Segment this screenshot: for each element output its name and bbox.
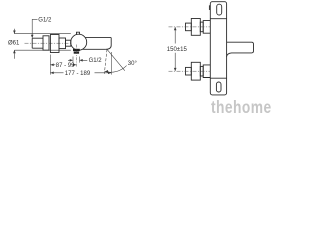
small screw tick on body bbox=[208, 6, 211, 10]
177-189 arrowheads bbox=[50, 72, 111, 75]
thermostat knob circle bbox=[71, 34, 87, 50]
body column bbox=[210, 2, 226, 95]
body neck step A bbox=[59, 38, 66, 49]
knob safety button cap bbox=[77, 32, 80, 34]
outlet dashed centerline bbox=[75, 45, 77, 67]
top connector: shaped piece bbox=[203, 21, 210, 34]
left extension line (wall face) bbox=[49, 55, 51, 75]
30deg arc arrowhead bbox=[105, 70, 109, 73]
bottom connector centerline bbox=[169, 70, 211, 72]
svg-text:150±15: 150±15 bbox=[167, 47, 188, 53]
30deg swivel solid line bbox=[107, 49, 125, 70]
svg-text:G1/2: G1/2 bbox=[38, 17, 52, 23]
Ø61 arrowheads bbox=[13, 31, 16, 54]
shower outlet stub (dark) bbox=[73, 49, 80, 54]
bottom pill handle bbox=[216, 82, 221, 92]
spout arm bbox=[227, 42, 254, 57]
G1/2 outlet extension lines bbox=[73, 57, 79, 63]
150±15 arrowheads bbox=[174, 27, 177, 71]
Ø61 extension line top bbox=[14, 33, 70, 35]
svg-text:177 - 189: 177 - 189 bbox=[65, 71, 91, 77]
body inner line bottom bbox=[210, 77, 226, 79]
dimension 177-189 line bbox=[50, 72, 111, 74]
top connector: tail union bbox=[186, 23, 192, 31]
svg-text:Ø61: Ø61 bbox=[8, 41, 20, 47]
top connector: step ring bbox=[200, 22, 203, 32]
dimension 150±15 line bbox=[174, 27, 176, 71]
G1/2 top leader arrowhead bbox=[31, 35, 34, 38]
wall escutcheon flange bbox=[50, 35, 59, 53]
top pill handle bbox=[217, 4, 222, 15]
dimension 87-99 line bbox=[50, 64, 76, 66]
svg-text:87 - 99: 87 - 99 bbox=[56, 63, 75, 69]
30deg arc bbox=[105, 66, 127, 73]
right extension line (spout tip) bbox=[110, 52, 112, 75]
pipe nut bbox=[43, 36, 49, 50]
G1/2 outlet leader tails bbox=[68, 59, 87, 61]
spout bar bottom edge bbox=[83, 48, 106, 50]
main centerline (dashed) bbox=[25, 42, 73, 44]
svg-text:30°: 30° bbox=[128, 61, 138, 67]
bottom connector: nut bbox=[191, 62, 200, 80]
spout bar top edge bbox=[85, 37, 111, 39]
svg-text:G1/2: G1/2 bbox=[89, 58, 103, 64]
Ø61 extension line bottom bbox=[14, 49, 70, 51]
87-99 arrowheads bbox=[50, 64, 76, 67]
dimension Ø61 vertical line bbox=[13, 29, 15, 59]
label G1/2 top leader bbox=[32, 19, 37, 35]
body inner line top bbox=[210, 18, 226, 20]
bottom connector: tail union bbox=[186, 67, 192, 75]
bottom connector: shaped piece bbox=[203, 65, 210, 78]
watermark thehome bbox=[211, 98, 278, 119]
wall supply pipe bbox=[32, 38, 43, 48]
G1/2 outlet arrows bbox=[70, 59, 83, 62]
top connector: nut bbox=[191, 19, 200, 36]
30deg swivel dashed line bbox=[104, 49, 107, 74]
spout tip right edge and nose curve bbox=[106, 38, 112, 50]
bottom connector: step ring bbox=[200, 66, 203, 76]
top connector centerline bbox=[169, 26, 211, 28]
body neck step B bbox=[66, 40, 71, 46]
